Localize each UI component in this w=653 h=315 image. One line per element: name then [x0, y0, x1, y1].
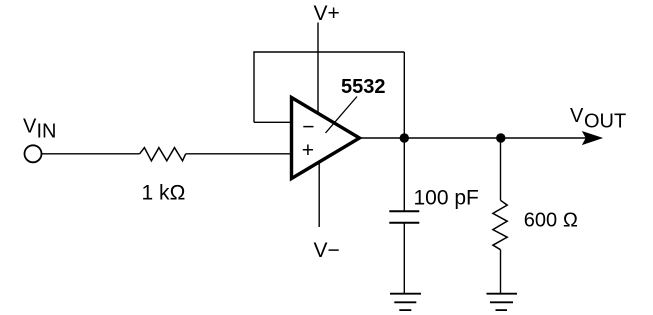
wire VIN to R1 [42, 153, 140, 155]
label VOUT [570, 105, 626, 133]
svg-text:1 kΩ: 1 kΩ [142, 182, 186, 205]
wire node to capacitor top plate [403, 138, 405, 211]
svg-text:V+: V+ [314, 2, 340, 25]
svg-text:V: V [23, 116, 37, 138]
capacitor C1 bottom plate [389, 222, 419, 224]
node VIN input terminal [25, 145, 42, 162]
svg-text:IN: IN [37, 121, 57, 143]
wire feedback top horizontal [253, 51, 404, 53]
wire R1 to op-amp noninverting input [186, 153, 292, 155]
svg-text:−: − [302, 116, 314, 139]
wire op-amp output to arrow [360, 137, 587, 139]
svg-text:V: V [570, 105, 584, 127]
svg-text:+: + [302, 139, 314, 162]
wire capacitor to ground [403, 223, 405, 294]
op-amp U1 triangle [292, 98, 360, 179]
svg-text:OUT: OUT [584, 111, 626, 133]
arrowhead to VOUT [583, 132, 602, 144]
wire node to load resistor [500, 138, 502, 200]
label VIN [23, 116, 57, 143]
ground below load resistor [487, 294, 518, 310]
resistor R2 600 Ohm [493, 200, 507, 249]
resistor R1 1 kOhm [140, 148, 186, 161]
power V+ lead [317, 23, 319, 114]
pointer line from 5532 label to op-amp [326, 97, 358, 134]
junction node at load resistor [496, 133, 505, 142]
wire load resistor to ground [500, 250, 502, 294]
svg-text:100 pF: 100 pF [414, 186, 479, 209]
svg-text:600 Ω: 600 Ω [524, 210, 578, 232]
ground below capacitor [390, 294, 421, 310]
wire inverting input (feedback lower horizontal) [254, 121, 292, 123]
wire feedback right vertical to output node [403, 52, 405, 138]
capacitor C1 top plate [389, 210, 419, 212]
svg-text:5532: 5532 [341, 76, 386, 98]
svg-text:V−: V− [314, 239, 340, 262]
wire feedback left vertical [253, 52, 255, 122]
junction node at capacitor [400, 133, 409, 142]
power V- lead [318, 162, 320, 227]
